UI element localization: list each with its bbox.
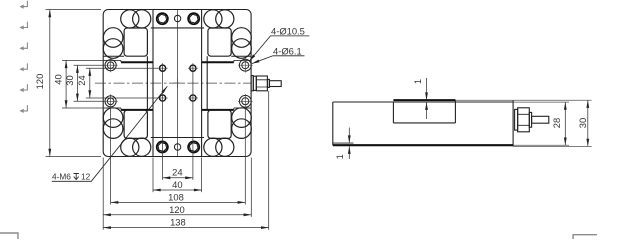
connector on plate right edge (front view) — [251, 76, 281, 91]
svg-text:30: 30 — [64, 75, 75, 85]
center four holes — [160, 65, 196, 101]
vertical centerline — [177, 10, 179, 156]
svg-text:4-M6: 4-M6 — [52, 172, 71, 182]
ledge lines beside cutouts — [103, 55, 251, 57]
dim 1 (bottom step) — [348, 128, 350, 160]
inner verticals between cutouts — [146, 56, 148, 110]
svg-text:28: 28 — [551, 118, 562, 128]
hex socket screws top and bottom — [157, 13, 168, 24]
ext lines 120 — [46, 9, 102, 11]
label 4-phi6.1 — [252, 46, 305, 64]
svg-text:40: 40 — [52, 74, 63, 84]
left-top vertical peanut — [103, 28, 123, 48]
dim 1 (top recess) — [426, 78, 428, 119]
left-bottom vertical peanut — [103, 108, 123, 128]
label 4-phi10.5 — [249, 26, 309, 62]
ext lines 24 — [86, 67, 158, 69]
right-top vertical peanut — [232, 28, 252, 48]
inner rounded cutout top-right — [208, 28, 231, 56]
svg-text:138: 138 — [170, 217, 186, 228]
svg-text:1: 1 — [334, 154, 345, 159]
inner rounded cutout bottom-left — [124, 110, 147, 138]
svg-text:108: 108 — [168, 192, 184, 203]
svg-text:1: 1 — [412, 79, 423, 84]
svg-text:4-Ø6.1: 4-Ø6.1 — [273, 46, 302, 57]
body outline — [333, 101, 513, 103]
pocket step lines left — [103, 60, 153, 110]
inner rounded cutout top-left — [124, 28, 231, 138]
extension lines — [162, 63, 164, 180]
dim line 120 — [103, 214, 251, 216]
counterbore holes right column — [239, 59, 251, 107]
top-left horizontal peanut — [121, 10, 139, 28]
dim line 108 — [111, 201, 246, 203]
M6 holes left column — [105, 60, 116, 107]
bottom-right horizontal peanut — [204, 138, 222, 156]
svg-text:24: 24 — [172, 167, 182, 178]
center mark — [173, 78, 183, 88]
side connector — [515, 108, 549, 132]
dim 30 — [587, 100, 589, 146]
svg-text:24: 24 — [76, 75, 87, 85]
outer plate — [103, 10, 251, 157]
right-bottom vertical peanut — [232, 108, 252, 128]
central column edges — [147, 10, 207, 157]
bottom step line — [333, 142, 354, 144]
dim line 24 — [163, 177, 193, 179]
small center circles top/bottom — [174, 15, 180, 21]
return glyphs column — [19, 1, 27, 113]
svg-text:120: 120 — [169, 204, 185, 215]
svg-text:40: 40 — [172, 179, 182, 190]
dim 28 — [564, 102, 566, 145]
svg-text:30: 30 — [577, 118, 588, 128]
peanut slots (each = two overlapping circles) — [103, 10, 251, 156]
dim line 138 — [103, 227, 269, 229]
horizontal centerline — [95, 82, 251, 84]
svg-text:12: 12 — [81, 172, 91, 182]
inner band lines — [151, 27, 204, 29]
title block corner — [0, 233, 597, 239]
svg-text:4-Ø10.5: 4-Ø10.5 — [271, 26, 305, 37]
ext lines 30 — [74, 64, 105, 66]
inner rounded cutout bottom-right — [208, 110, 231, 138]
pocket step lines right — [202, 60, 252, 110]
bottom-left horizontal peanut — [121, 138, 139, 156]
ext lines 40 — [62, 59, 103, 61]
top-right horizontal peanut — [204, 10, 222, 28]
dim line 40 — [153, 189, 202, 191]
svg-text:120: 120 — [34, 74, 45, 90]
dim 120 — [49, 10, 51, 157]
M6 hole crosses — [104, 58, 118, 108]
side view extension lines — [455, 100, 591, 146]
recess — [393, 99, 455, 101]
label 4-M6 depth 12 — [52, 86, 168, 181]
